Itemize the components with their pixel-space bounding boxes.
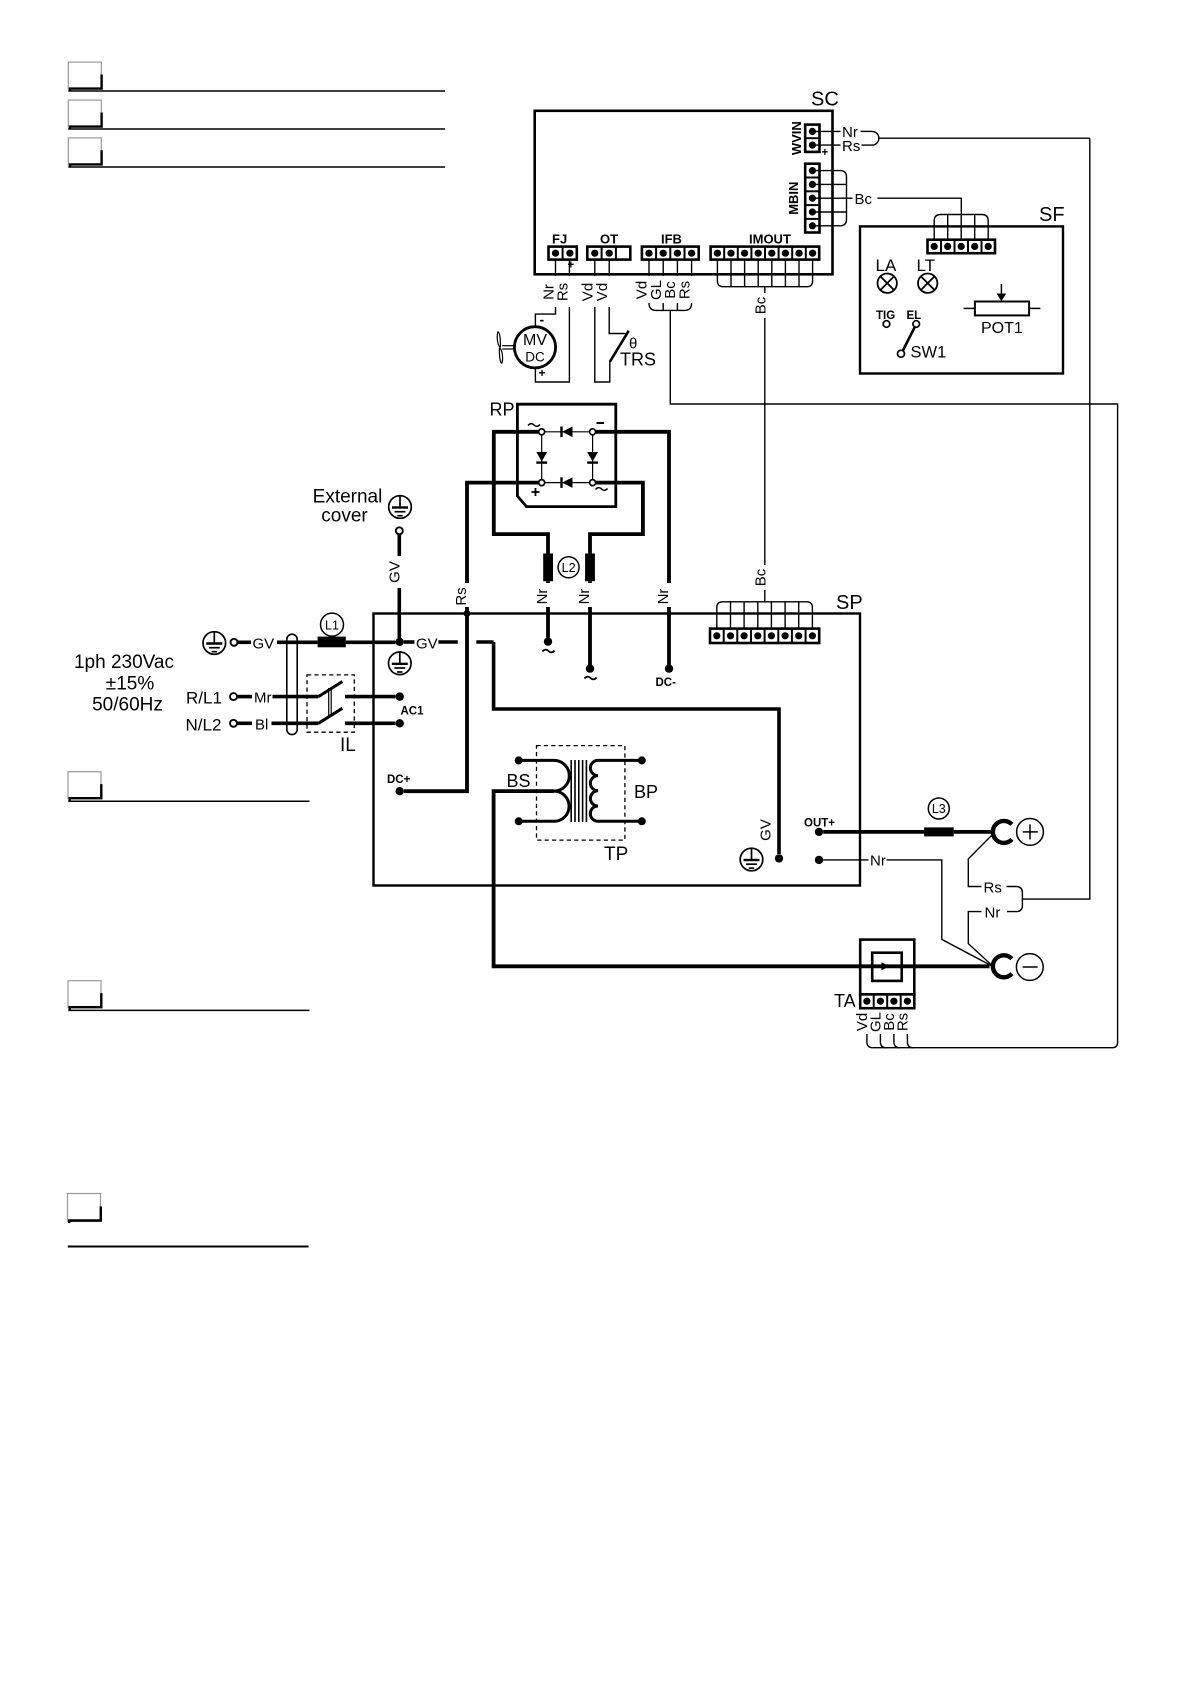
wire BS centre tap to minus output [494,791,990,966]
minus symbol circle [1016,954,1043,981]
svg-text:-: - [540,312,545,328]
wires chokes into SP [548,581,590,665]
plus symbol circle [1017,819,1044,846]
svg-text:cover: cover [321,506,368,527]
wire IFB to TA (right side long line) [670,310,1117,1047]
note box 2 [68,100,101,127]
svg-text:DC: DC [525,350,545,365]
svg-text:+: + [568,260,575,272]
RP inner links [542,432,593,483]
svg-text:GV: GV [758,819,775,841]
svg-text:WVIN: WVIN [789,121,804,155]
svg-text:+: + [539,366,546,380]
IL mechanical link [329,688,332,716]
svg-text:Nr: Nr [534,589,551,605]
connector IMOUT [711,247,820,260]
wires IL to AC1 [345,695,395,699]
RP diode right [587,452,598,462]
node AC1 a [396,692,404,700]
svg-text:TA: TA [834,991,856,1011]
svg-text:L1: L1 [325,618,339,632]
svg-text:Nr: Nr [870,853,886,870]
IL blade 2 [319,708,343,723]
wire OT left to TRS [595,260,626,382]
svg-text:IL: IL [340,735,356,756]
svg-text:Nr: Nr [576,589,593,605]
RP diode bottom [562,477,572,488]
wire RP plus to Rs/DC+ [404,483,539,792]
connector MBIN [805,164,819,233]
terminal circle (mains gv) [231,639,238,646]
wire L1 to GV junction [346,640,396,644]
svg-text:MV: MV [523,332,547,349]
node AC1 b [396,719,404,727]
choke L2 b [585,554,595,582]
note underline 1 [68,90,445,92]
note box 6 [68,1194,101,1222]
L2 label [558,557,579,578]
svg-text:Vd: Vd [594,283,611,301]
svg-text:L3: L3 [932,802,946,816]
label GV right of junction [404,640,494,644]
transformer TP dashed box [537,746,625,841]
svg-text:MBIN: MBIN [786,182,801,215]
node Nr out [815,856,823,864]
svg-text:TP: TP [604,844,628,865]
node GV junction [396,638,404,646]
wire Bc from IMOUT down to SP [764,287,766,602]
note box 4 [68,772,101,799]
svg-text:L2: L2 [562,561,576,575]
svg-text:TRS: TRS [620,350,656,370]
note underline 5 [68,1009,309,1011]
ground symbol (inside SP top) [389,652,412,675]
output socket plus [993,821,1012,843]
potentiometer POT1 [975,302,1029,316]
wire FJ-Rs to MV plus [535,260,569,382]
wire GV to inner ground dot [494,642,779,854]
svg-text:OUT+: OUT+ [804,818,835,830]
wire mains GV to L1 [238,640,318,644]
cable grommet oval [287,634,297,734]
main switch IL [307,675,354,732]
svg-text:EL: EL [907,310,922,322]
RP node circles [539,429,596,486]
note line 6 [68,1246,309,1248]
svg-text:Rs: Rs [677,281,694,299]
board SF [860,226,1063,373]
svg-text:Rs: Rs [894,1013,911,1031]
node DC+ [396,787,404,795]
svg-text:OT: OT [600,232,618,247]
svg-text:RP: RP [490,400,515,420]
terminal dot ac1 from choke a [544,637,552,645]
MBIN wire bundle [816,171,847,226]
connector OT [587,247,630,260]
connector WVIN [805,125,819,152]
RP diode top [562,427,572,438]
RP diode left [536,452,547,462]
wire OUT+ to L3 [823,830,924,834]
svg-text:50/60Hz: 50/60Hz [92,695,163,716]
wire right vertical from WVIN pair [1022,138,1089,899]
svg-text:External: External [313,487,383,508]
svg-text:SW1: SW1 [911,344,947,362]
svg-text:DC+: DC+ [387,774,411,786]
SP output connector (8 pin) [710,629,819,643]
svg-text:AC1: AC1 [401,706,425,718]
svg-text:FJ: FJ [552,232,567,247]
IMOUT wire bundle [717,260,812,287]
svg-text:GV: GV [416,635,438,652]
terminal dot DC- [665,664,673,672]
connector IFB [642,247,699,260]
svg-text:LT: LT [917,256,936,275]
svg-text:POT1: POT1 [981,320,1023,337]
svg-text:Nr: Nr [985,904,1001,921]
svg-text:Bc: Bc [753,296,770,314]
wire external cover GV down [397,535,401,639]
svg-text:SF: SF [1039,204,1065,226]
terminal dot ac2 from choke b [586,664,594,672]
TA wire bundle [867,1034,914,1048]
wire Bc from MBIN to SF [847,198,962,214]
svg-text:IFB: IFB [661,232,682,247]
connector FJ [549,247,577,260]
board SP [374,614,861,886]
RP terminal marks [528,424,540,427]
SP connector wire bundle [717,602,813,629]
svg-text:BP: BP [634,782,658,802]
output socket minus [993,955,1012,977]
note box 5 [68,981,101,1008]
svg-text:+: + [822,147,829,159]
node GV dot (lower SP) [775,854,783,862]
wire FJ-Nr to MV minus [535,260,555,327]
wire RP ac-right to choke L2b [590,483,643,554]
wire RP ac-left to choke L2a [494,432,548,554]
note underline 2 [68,128,445,130]
svg-text:GV: GV [387,561,404,583]
svg-text:Nr: Nr [655,589,672,605]
SF wire bundle [934,215,988,240]
IL blade 1 [319,682,343,697]
transformer core [571,760,586,822]
node OUT+ [815,828,823,836]
svg-text:Rs: Rs [842,138,860,155]
svg-text:Bc: Bc [855,191,873,208]
svg-text:DC-: DC- [656,677,677,689]
svg-text:N/L2: N/L2 [186,716,222,735]
TA connector [860,994,914,1008]
svg-text:R/L1: R/L1 [186,689,222,708]
svg-text:BS: BS [507,771,531,791]
board SC [535,111,833,274]
svg-text:LA: LA [876,256,897,275]
wire WVIN Nr [816,131,1090,145]
svg-text:Bl: Bl [255,716,268,733]
choke L2 a [543,554,553,582]
choke L1 [318,637,346,648]
ground symbol (external cover) [389,496,412,519]
svg-text:GV: GV [253,635,275,652]
ground symbol (lower SP) [740,848,763,871]
svg-text:1ph 230Vac: 1ph 230Vac [74,652,174,673]
svg-text:Mr: Mr [254,690,272,707]
svg-text:SP: SP [836,592,863,614]
svg-text:SC: SC [811,89,839,111]
ground symbol (mains) [203,632,226,655]
SF connector [928,240,996,254]
note underline 3 [68,166,445,168]
fan motor MV [514,327,555,368]
note box 1 [68,62,101,89]
sense wire from plus socket [968,835,1022,966]
svg-text:Rs: Rs [555,283,572,301]
wire L3 to plus socket [954,830,991,834]
current sensor TA [860,940,914,995]
thermal switch TRS [610,331,629,362]
svg-text:Bc: Bc [753,568,770,586]
svg-text:IMOUT: IMOUT [749,232,791,247]
svg-text:Rs: Rs [453,587,470,605]
IFB wire bundle [649,260,692,311]
fan blades of MV [497,332,514,363]
wire RP minus to DC- [596,432,669,665]
terminal circle (external cover) [396,527,403,534]
note underline 4 [68,800,309,802]
svg-text:±15%: ±15% [106,674,155,695]
note box 3 [68,138,101,165]
choke L3 [924,827,954,836]
svg-text:Rs: Rs [984,879,1002,896]
node Rs junction on SP edge [464,610,471,617]
